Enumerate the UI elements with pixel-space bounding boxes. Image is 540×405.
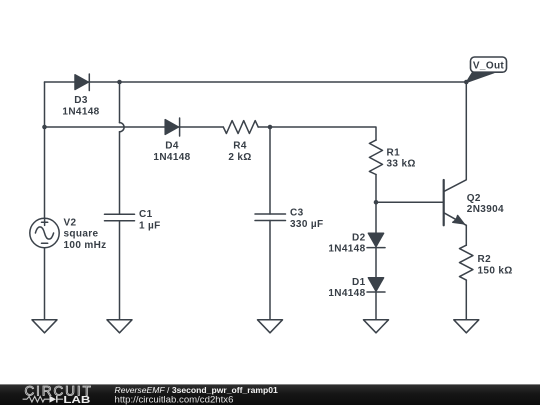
- resistor R1: [369, 140, 382, 174]
- label D3 name: [74, 95, 88, 106]
- svg-text:V2: V2: [64, 217, 77, 228]
- footer bar: [0, 384, 540, 405]
- label D1 name: [352, 277, 366, 288]
- logo LAB text: [63, 395, 90, 405]
- wire emitter to R2: [465, 225, 467, 245]
- label D3 value: [62, 107, 99, 118]
- svg-text:R4: R4: [233, 141, 247, 152]
- svg-text:V_Out: V_Out: [473, 60, 505, 71]
- svg-text:2 kΩ: 2 kΩ: [228, 152, 251, 163]
- svg-text:330 µF: 330 µF: [290, 219, 323, 230]
- resistor R4: [223, 121, 258, 134]
- logo resistor squiggle: [23, 396, 50, 402]
- svg-text:1 µF: 1 µF: [139, 220, 161, 231]
- node junction dot (C3 / middle rail): [268, 125, 273, 130]
- svg-text:100 mHz: 100 mHz: [64, 240, 107, 251]
- wire D2 to D1: [375, 248, 377, 278]
- label R2 value: [478, 266, 513, 277]
- logo CIRCUIT text: [25, 383, 93, 398]
- resistor R2: [460, 245, 473, 280]
- svg-text:D4: D4: [165, 141, 179, 152]
- ground (V2): [32, 320, 57, 333]
- label V2 name: [64, 217, 77, 228]
- label R4 value: [228, 152, 251, 163]
- node junction dot V_Out: [464, 80, 469, 85]
- label V_Out text: [473, 60, 505, 71]
- diode D4: [165, 118, 179, 136]
- wire middle rail left of R4: [45, 126, 224, 128]
- label D1 value: [328, 288, 365, 299]
- svg-text:R1: R1: [387, 147, 401, 158]
- svg-text:D3: D3: [74, 95, 88, 106]
- wire base (node B to Q2): [376, 201, 444, 203]
- label D2 value: [328, 244, 365, 255]
- wire R1 to node B: [375, 175, 377, 234]
- svg-text:1N4148: 1N4148: [153, 152, 190, 163]
- label C1 value: [139, 220, 161, 231]
- label D2 name: [352, 232, 366, 243]
- label V2 value: [64, 240, 107, 251]
- label C3 name: [290, 207, 304, 218]
- wire C3 branch: [269, 127, 271, 214]
- label R2 name: [478, 254, 492, 265]
- svg-text:33 kΩ: 33 kΩ: [387, 158, 416, 169]
- diode D3: [75, 74, 89, 91]
- node B junction dot (R1 / D2 / base): [374, 200, 379, 205]
- footer title line: [115, 385, 279, 395]
- svg-text:1N4148: 1N4148: [328, 288, 365, 299]
- label R1 value: [387, 158, 416, 169]
- label V2 type: [64, 229, 99, 240]
- wire collector (V_Out rail down to Q2): [444, 82, 467, 192]
- node junction dot (left rail / middle rail): [42, 125, 47, 130]
- net flag V_Out: [467, 57, 507, 82]
- node junction dot (C1 / top rail): [117, 80, 122, 85]
- ground (D1): [364, 320, 389, 333]
- svg-text:R2: R2: [478, 254, 492, 265]
- wire D1 to ground: [375, 292, 377, 320]
- label R4 name: [233, 141, 247, 152]
- svg-text:C3: C3: [290, 207, 304, 218]
- label Q2 name: [467, 193, 481, 204]
- label Q2 value: [467, 204, 504, 215]
- svg-text:LAB: LAB: [63, 395, 90, 405]
- label D4 value: [153, 152, 190, 163]
- svg-text:C1: C1: [139, 209, 153, 220]
- ground (R2): [454, 320, 479, 333]
- capacitor C3: [255, 214, 286, 221]
- wire middle rail right of R4: [258, 127, 376, 140]
- label D4 name: [165, 141, 179, 152]
- svg-text:Q2: Q2: [467, 193, 481, 204]
- svg-text:D1: D1: [352, 277, 366, 288]
- wire left rail lower (V2 to ground): [44, 248, 46, 321]
- svg-text:square: square: [64, 229, 99, 240]
- label C1 name: [139, 209, 153, 220]
- wire C3 to ground: [269, 221, 271, 321]
- svg-text:http://circuitlab.com/cd2htx6: http://circuitlab.com/cd2htx6: [115, 394, 234, 405]
- logo diode symbol: [50, 396, 64, 403]
- wire left rail upper: [44, 82, 46, 219]
- label R1 name: [387, 147, 401, 158]
- svg-text:ReverseEMF / 3second_pwr_off_r: ReverseEMF / 3second_pwr_off_ramp01: [115, 385, 279, 395]
- svg-text:150 kΩ: 150 kΩ: [478, 266, 513, 277]
- wire R2 to ground: [465, 280, 467, 320]
- wire hop (C1 branch crossing middle rail): [120, 123, 125, 132]
- wire top rail: [45, 81, 467, 83]
- diode D1: [367, 278, 385, 292]
- ground (C3): [258, 320, 283, 333]
- capacitor C1: [105, 214, 135, 221]
- label C3 value: [290, 219, 323, 230]
- svg-text:D2: D2: [352, 232, 366, 243]
- wire C1 branch to capacitor: [119, 132, 121, 215]
- diode D2: [367, 233, 385, 247]
- ground (C1): [107, 320, 132, 333]
- wire C1 branch upper: [119, 82, 121, 123]
- svg-text:1N4148: 1N4148: [328, 244, 365, 255]
- svg-text:1N4148: 1N4148: [62, 107, 99, 118]
- svg-text:2N3904: 2N3904: [467, 204, 504, 215]
- source V2: [30, 218, 59, 247]
- wire C1 to ground: [119, 221, 121, 320]
- transistor Q2: [444, 180, 467, 225]
- footer url line: [115, 394, 234, 405]
